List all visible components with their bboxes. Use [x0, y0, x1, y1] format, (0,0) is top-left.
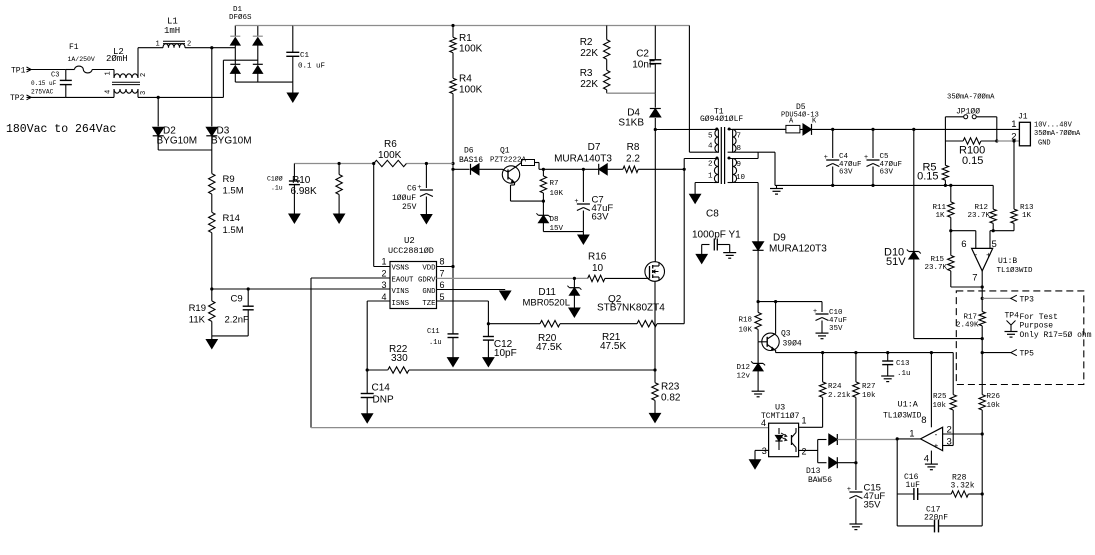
svg-text:2.49K: 2.49K	[956, 322, 979, 330]
node VDD wire junction	[451, 162, 454, 165]
svg-text:12v: 12v	[736, 373, 750, 381]
svg-text:47uF: 47uF	[829, 317, 847, 325]
node pin2/R26 junction	[981, 432, 984, 435]
node VINS divider junction	[210, 287, 213, 290]
svg-text:TP5: TP5	[1020, 350, 1035, 359]
svg-text:1A/250V: 1A/250V	[68, 56, 95, 63]
svg-text:R6: R6	[384, 139, 397, 150]
svg-text:BYG10M: BYG10M	[157, 136, 198, 147]
svg-text:U1:A: U1:A	[898, 400, 919, 410]
svg-text:MURA140T3: MURA140T3	[554, 154, 612, 165]
svg-text:100K: 100K	[378, 150, 402, 161]
wire TZE pin5 to C12	[437, 300, 489, 302]
svg-text:1: 1	[1011, 119, 1016, 130]
wire R17 to TP5	[981, 339, 983, 395]
svg-text:2ØmH: 2ØmH	[106, 54, 128, 64]
svg-text:+: +	[934, 442, 939, 451]
svg-text:330: 330	[391, 353, 408, 364]
DC+ top rail (gray)	[293, 25, 453, 27]
svg-text:8: 8	[921, 415, 926, 426]
svg-text:2: 2	[708, 161, 713, 169]
wire L2 pin2 up	[137, 48, 139, 78]
svg-text:Purpose: Purpose	[1020, 322, 1054, 331]
wire VDD column to C11	[452, 164, 454, 334]
wire GND pin6	[437, 289, 506, 291]
svg-text:U2: U2	[404, 236, 415, 246]
svg-text:51V: 51V	[886, 256, 906, 268]
svg-text:F1: F1	[69, 43, 79, 52]
svg-text:D11: D11	[538, 287, 556, 298]
wire output+ rail	[833, 128, 1020, 130]
wire L2 pin3 rail	[138, 96, 223, 98]
svg-text:23.7K: 23.7K	[967, 212, 990, 220]
svg-text:R11: R11	[932, 204, 946, 212]
svg-text:DFØ6S: DFØ6S	[229, 13, 252, 22]
svg-text:C11: C11	[427, 328, 440, 336]
diode D2 BYG10M (from AC2)	[157, 96, 160, 99]
svg-text:35V: 35V	[829, 325, 843, 333]
svg-text:7: 7	[972, 273, 977, 284]
wire R14 to VINS node	[211, 233, 213, 289]
svg-text:BAW56: BAW56	[808, 476, 832, 485]
svg-text:VINS: VINS	[392, 288, 410, 296]
ground below C1	[292, 82, 294, 93]
svg-text:10pF: 10pF	[494, 348, 517, 359]
node top rail / R1 junction	[451, 24, 454, 27]
svg-text:4: 4	[924, 454, 929, 465]
wire secondary GND rail	[775, 184, 993, 186]
svg-text:4: 4	[105, 90, 113, 94]
wire AC2 riser	[222, 60, 224, 97]
wire pin2 row	[943, 433, 983, 435]
svg-text:1.5M: 1.5M	[223, 225, 244, 236]
node ISNS/R22 junction	[366, 368, 369, 371]
ground below C100	[289, 214, 300, 223]
node R7 top junction	[542, 168, 545, 171]
svg-text:VSNS: VSNS	[392, 265, 410, 273]
wire GDRV pin7 (gray)	[437, 277, 588, 279]
wire L1 to bridge AC1	[185, 47, 235, 49]
wire J1 pin2 (gray)	[997, 140, 1020, 142]
wire EAOUT pin2 route	[311, 277, 390, 279]
svg-text:22K: 22K	[580, 48, 598, 59]
svg-text:1.5M: 1.5M	[223, 186, 244, 197]
wire R19/C9 bottom link	[212, 335, 248, 337]
svg-text:R27: R27	[862, 383, 876, 391]
svg-text:TP2: TP2	[10, 94, 25, 103]
wire R3 bottom link (gray)	[606, 90, 608, 93]
svg-text:.1u: .1u	[429, 339, 442, 347]
ground right of C8	[723, 252, 736, 254]
wire R15 feedback to output	[951, 286, 982, 288]
svg-text:L1: L1	[167, 17, 178, 27]
wire T1 pin1 to ground	[695, 182, 713, 184]
svg-text:2: 2	[802, 446, 807, 456]
node aux junction	[683, 168, 686, 171]
svg-text:R18: R18	[738, 317, 752, 325]
svg-text:R16: R16	[588, 252, 607, 263]
svg-text:63V: 63V	[592, 212, 610, 223]
svg-text:10k: 10k	[932, 402, 946, 410]
svg-text:10k: 10k	[862, 392, 876, 400]
wire top rail to T1 pin4	[688, 26, 690, 153]
wire U1:B output	[981, 271, 983, 299]
wire U3 pin1 to R24	[799, 426, 823, 428]
svg-text:3: 3	[381, 280, 386, 290]
svg-text:C10: C10	[829, 309, 843, 317]
svg-text:BYG10M: BYG10M	[211, 136, 252, 147]
svg-text:C13: C13	[896, 360, 910, 368]
svg-text:-: -	[935, 430, 938, 439]
svg-text:R23: R23	[661, 382, 680, 393]
svg-text:U3: U3	[775, 403, 785, 413]
wire Q1 emitter	[514, 183, 516, 186]
svg-text:D9: D9	[773, 233, 786, 244]
svg-text:1: 1	[156, 41, 160, 49]
svg-text:GDRV: GDRV	[418, 276, 436, 284]
svg-text:2.2: 2.2	[626, 154, 640, 165]
ground below C15	[849, 523, 862, 525]
ground below C10	[816, 332, 829, 334]
ground below C11	[448, 358, 459, 367]
svg-text:35ØmA-7ØØmA: 35ØmA-7ØØmA	[1034, 129, 1081, 138]
svg-text:D8: D8	[550, 216, 559, 224]
ground at U1:A pin4	[925, 463, 938, 465]
wire VCC to U1:A pin8	[930, 351, 933, 354]
wire pin5 row	[990, 230, 1014, 232]
svg-text:TP4: TP4	[1005, 312, 1020, 321]
node TP3 junction	[981, 297, 984, 300]
svg-text:-: -	[974, 250, 977, 259]
svg-text:R7: R7	[550, 180, 559, 188]
wire T1 pin10 to D9	[733, 182, 759, 184]
ground below C7	[582, 232, 584, 235]
svg-text:2: 2	[140, 73, 148, 77]
wire VINS node to U2 pin3	[212, 288, 390, 290]
node TP5	[981, 351, 984, 354]
svg-text:220nF: 220nF	[924, 514, 948, 523]
wire U3 pin3 to ground	[755, 449, 769, 451]
svg-text:4: 4	[761, 418, 766, 428]
svg-text:VDD: VDD	[422, 265, 436, 273]
ground below C13	[881, 375, 894, 377]
ground at U3 pin3	[750, 460, 761, 469]
svg-text:7: 7	[737, 133, 742, 141]
svg-text:180Vac to 264Vac: 180Vac to 264Vac	[6, 123, 117, 136]
wire drain column	[654, 130, 656, 263]
wire aux supply rail	[758, 301, 822, 303]
svg-text:D6: D6	[464, 147, 474, 156]
svg-text:10V...48V: 10V...48V	[1034, 122, 1073, 130]
svg-text:10: 10	[736, 174, 746, 182]
svg-text:1ØØuF: 1ØØuF	[392, 194, 416, 203]
node TP3	[982, 297, 1011, 299]
svg-text:ISNS: ISNS	[392, 300, 410, 308]
svg-text:TP3: TP3	[1020, 296, 1035, 305]
wire R22 to Q2 source	[409, 369, 655, 371]
wire VSNS riser (R6 left to U2 pin1)	[373, 164, 375, 267]
svg-text:R13: R13	[1020, 204, 1034, 212]
svg-text:S1KB: S1KB	[618, 118, 644, 129]
ground below D11	[569, 308, 580, 317]
wire R16 to Q2 gate	[605, 277, 646, 279]
wire aux row from R4 column	[451, 168, 454, 171]
node output/C16 junction	[896, 437, 899, 440]
ground at U2 pin6	[500, 291, 511, 300]
svg-text:3: 3	[140, 91, 148, 95]
svg-text:22K: 22K	[580, 79, 598, 90]
svg-text:UCC2881ØD: UCC2881ØD	[388, 246, 434, 256]
svg-text:R19: R19	[189, 303, 206, 314]
svg-text:0.15: 0.15	[962, 155, 983, 167]
svg-text:4: 4	[708, 143, 713, 151]
svg-text:R10: R10	[292, 175, 311, 186]
wire R20-R21	[560, 323, 637, 325]
svg-text:1: 1	[105, 71, 113, 75]
svg-text:BAS16: BAS16	[459, 156, 483, 165]
svg-text:4: 4	[381, 292, 386, 302]
svg-text:GØ94Ø1ØLF: GØ94Ø1ØLF	[700, 115, 743, 124]
svg-text:R1: R1	[459, 33, 472, 44]
wire Q3 emitter rail	[776, 352, 954, 354]
svg-text:U1:B: U1:B	[998, 257, 1017, 266]
svg-text:R26: R26	[987, 393, 1001, 401]
svg-text:10: 10	[592, 263, 604, 274]
svg-text:MURA120T3: MURA120T3	[769, 244, 827, 255]
wire TP1 to F1	[66, 69, 75, 71]
svg-text:C3: C3	[51, 72, 59, 80]
wire U3 pin2 to D13	[799, 449, 818, 451]
svg-text:0.15: 0.15	[917, 171, 938, 183]
svg-text:For Test: For Test	[1020, 313, 1058, 322]
svg-text:J1: J1	[1018, 112, 1028, 121]
svg-text:5: 5	[992, 239, 997, 250]
svg-text:R15: R15	[930, 256, 944, 264]
wire R9-R14	[211, 194, 213, 212]
svg-text:10K: 10K	[550, 190, 564, 198]
svg-text:0.1 uF: 0.1 uF	[298, 63, 325, 71]
wire pin4 ground	[930, 451, 932, 465]
wire Q2 source	[654, 281, 656, 370]
wire Q2 drain	[654, 261, 656, 263]
svg-text:MBR0520L: MBR0520L	[522, 298, 570, 309]
wire pin3 row	[943, 445, 954, 447]
wire aux to T1 pin2	[683, 159, 685, 170]
wire T1 pin7 output	[733, 128, 788, 130]
wire R4 down to VDD node	[452, 94, 454, 164]
Q1 collector box	[522, 160, 535, 166]
wire Q1 box to R7 node	[539, 168, 543, 170]
svg-text:R17: R17	[963, 314, 977, 322]
svg-text:5: 5	[440, 292, 445, 302]
wire T1 pin8/9 tie	[733, 151, 759, 153]
svg-text:C2: C2	[636, 49, 649, 60]
svg-text:D7: D7	[588, 142, 601, 153]
svg-text:R8: R8	[627, 142, 640, 153]
svg-text:23.7K: 23.7K	[924, 264, 947, 272]
ground left of C8	[696, 254, 707, 263]
wire EAOUT bottom (gray) to opto	[311, 427, 769, 429]
ground at T1 pin1	[690, 194, 701, 203]
bridge top rail	[235, 25, 292, 27]
wire D8 to C7 ground link	[543, 231, 583, 233]
wire TP2 to L2 pin4	[66, 96, 114, 98]
svg-text:R2: R2	[580, 37, 593, 48]
svg-text:1000pF Y1: 1000pF Y1	[692, 230, 741, 241]
wire VDD rail (gray)	[294, 163, 373, 165]
svg-text:2: 2	[381, 268, 386, 278]
wire VDD pin8	[437, 266, 454, 268]
node AC1 junction	[210, 46, 213, 49]
svg-text:R25: R25	[933, 393, 947, 401]
svg-text:2.2nF: 2.2nF	[225, 315, 249, 326]
svg-text:TL1Ø3WID: TL1Ø3WID	[997, 266, 1034, 275]
wire R8 to aux junction	[638, 168, 684, 170]
svg-text:TZE: TZE	[422, 300, 435, 308]
wire ISNS pin4 route	[367, 300, 390, 302]
svg-text:D12: D12	[736, 364, 750, 372]
ground on GND rail	[776, 185, 778, 188]
wire U1:A output	[897, 438, 920, 440]
svg-text:0.82: 0.82	[661, 393, 681, 404]
svg-text:R9: R9	[223, 174, 235, 185]
dashed test box	[956, 291, 1084, 385]
node R7 bottom / emitter junction	[542, 200, 545, 203]
svg-text:1: 1	[381, 257, 386, 267]
svg-text:47.5K: 47.5K	[600, 341, 626, 352]
wire D13 upper output (gray)	[837, 439, 897, 441]
svg-text:JP1ØØ: JP1ØØ	[956, 108, 980, 117]
svg-text:100K: 100K	[459, 85, 483, 96]
node D4/pin5 junction	[654, 128, 657, 131]
svg-text:DNP: DNP	[373, 395, 394, 406]
bridge bottom rail	[235, 81, 292, 83]
svg-text:C6: C6	[407, 185, 417, 194]
svg-text:TL1Ø3WID: TL1Ø3WID	[883, 412, 922, 421]
svg-text:Only R17=5Ø ohm: Only R17=5Ø ohm	[1020, 331, 1092, 340]
svg-text:Q1: Q1	[500, 147, 510, 156]
svg-text:+: +	[986, 251, 991, 260]
svg-text:1K: 1K	[935, 212, 945, 220]
node R100 right / J1 pin2	[995, 139, 998, 142]
svg-text:6: 6	[961, 239, 966, 250]
svg-text:10k: 10k	[987, 402, 1001, 410]
wire D2-D3 join	[158, 149, 212, 151]
svg-text:2.21k: 2.21k	[828, 392, 851, 400]
diode D3 BYG10M (from AC1)	[211, 48, 213, 127]
ground below D12	[752, 390, 765, 392]
node Q2 source junction	[653, 368, 656, 371]
svg-text:.1u: .1u	[897, 370, 911, 378]
svg-text:R24: R24	[828, 383, 842, 391]
wire R1-R4	[452, 53, 454, 78]
svg-text:C8: C8	[706, 209, 719, 220]
ground below R23	[650, 413, 661, 422]
ground below R19	[211, 336, 213, 340]
svg-text:7: 7	[440, 268, 445, 278]
svg-text:C14: C14	[372, 383, 391, 394]
svg-text:63V: 63V	[839, 168, 853, 176]
svg-text:R14: R14	[223, 213, 240, 224]
ground below C14	[362, 414, 373, 423]
node C12 top	[487, 322, 490, 325]
wire R21 to aux riser	[657, 323, 684, 325]
svg-text:35ØmA-7ØØmA: 35ØmA-7ØØmA	[947, 93, 995, 102]
svg-text:275VAC: 275VAC	[31, 89, 54, 96]
wire VCC corner to R25	[952, 353, 954, 395]
svg-text:3.32k: 3.32k	[951, 482, 975, 491]
node D13 lower output	[854, 461, 857, 464]
node R17 bottom / D10 link	[981, 337, 984, 340]
wire D10 bottom link	[914, 338, 983, 340]
svg-text:1: 1	[909, 429, 914, 440]
svg-text:1: 1	[802, 416, 807, 426]
svg-text:8: 8	[440, 257, 445, 267]
svg-text:1: 1	[708, 173, 713, 181]
svg-text:10nF: 10nF	[632, 60, 655, 71]
svg-text:25V: 25V	[402, 203, 417, 212]
svg-text:11K: 11K	[189, 315, 206, 326]
svg-text:6: 6	[440, 280, 445, 290]
svg-text:10K: 10K	[738, 327, 752, 335]
svg-text:TP1: TP1	[11, 67, 26, 76]
svg-text:D1: D1	[233, 6, 243, 14]
svg-text:1K: 1K	[1022, 212, 1032, 220]
svg-text:C9: C9	[231, 294, 243, 305]
wire center tap to GND rail	[758, 151, 775, 153]
ground below R10	[334, 214, 345, 223]
node aux supply	[757, 300, 760, 303]
svg-text:R4: R4	[459, 74, 472, 85]
svg-text:0.15 uF: 0.15 uF	[31, 80, 57, 87]
svg-text:39Ø4: 39Ø4	[783, 340, 802, 349]
svg-text:GND: GND	[1038, 140, 1051, 148]
svg-text:D13: D13	[806, 467, 821, 476]
svg-text:R3: R3	[580, 68, 593, 79]
svg-text:1mH: 1mH	[164, 26, 180, 36]
svg-text:35V: 35V	[864, 500, 882, 511]
svg-text:C1ØØ: C1ØØ	[267, 175, 283, 183]
svg-text:EAOUT: EAOUT	[392, 276, 415, 284]
svg-text:Q3: Q3	[781, 330, 791, 339]
svg-text:47.5K: 47.5K	[536, 342, 562, 353]
svg-text:GND: GND	[422, 288, 436, 296]
wire pin6 row	[951, 230, 976, 232]
svg-text:6.98K: 6.98K	[291, 186, 317, 197]
svg-text:9: 9	[737, 161, 742, 169]
svg-text:5: 5	[708, 133, 713, 141]
svg-text:C4: C4	[839, 153, 849, 161]
wire pin5 drain link	[655, 128, 713, 130]
svg-text:R12: R12	[974, 204, 988, 212]
svg-text:100K: 100K	[459, 44, 483, 55]
ground below C12	[483, 358, 494, 367]
ground below C6	[421, 215, 432, 224]
wire feedback column	[981, 434, 983, 526]
svg-text:C5: C5	[880, 153, 890, 161]
svg-text:63V: 63V	[880, 168, 894, 176]
svg-text:TCMT11Ø7: TCMT11Ø7	[761, 412, 800, 421]
svg-text:C1: C1	[300, 52, 310, 60]
svg-text:.1u: .1u	[271, 185, 283, 192]
